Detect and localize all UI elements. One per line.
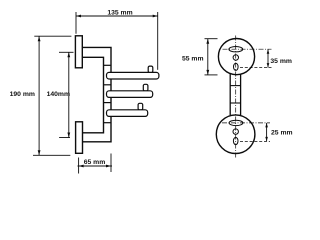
svg-text:35 mm: 35 mm — [270, 58, 292, 65]
bottom roundel screw hole — [233, 129, 238, 134]
knob on arm 2 — [143, 84, 148, 91]
arrowhead 190mm bottom — [38, 150, 41, 155]
dim 65mm extension line left — [78, 158, 80, 174]
bottom roundel lower boss extension — [240, 140, 270, 142]
post joint line 1 — [104, 64, 112, 66]
bottom roundel arm centerline — [222, 122, 270, 124]
dim 135mm extension line right — [157, 12, 159, 70]
front view stem right edge — [240, 74, 242, 115]
arrowhead 135mm right — [153, 15, 158, 18]
knob on arm 1 — [148, 66, 153, 73]
arrowhead 135mm left — [76, 15, 81, 18]
bracket and post outer outline — [82, 47, 111, 141]
front view stem left edge — [229, 74, 231, 115]
bracket and post inner outline — [82, 57, 103, 133]
vertical centerline — [235, 36, 237, 159]
arrowhead 65mm right — [106, 165, 111, 168]
bottom roundel arm ellipse — [229, 120, 243, 125]
arrowhead 25mm top — [265, 123, 268, 128]
dim 55mm extension line top — [205, 38, 218, 40]
arrowhead 140mm bottom — [67, 133, 70, 138]
arrowhead 35mm top — [267, 49, 270, 54]
top roundel screw hole — [233, 55, 238, 60]
dim 135mm extension line left — [75, 12, 77, 34]
post joint line 3 — [104, 102, 112, 104]
dim 65mm extension line right — [110, 154, 112, 173]
arrowhead 190mm top — [38, 36, 41, 41]
arrowhead 25mm bottom — [265, 137, 268, 142]
svg-text:190 mm: 190 mm — [10, 91, 35, 98]
arrowhead 35mm bottom — [267, 63, 270, 68]
dim 35mm dimension line — [267, 49, 269, 67]
wall plate bottom (side view) — [76, 122, 83, 154]
stem joint line 1 — [230, 85, 240, 87]
svg-text:55 mm: 55 mm — [182, 56, 204, 63]
dim 55mm extension line bottom — [205, 74, 218, 76]
wall plate top (side view) — [75, 36, 82, 68]
svg-text:135 mm: 135 mm — [107, 10, 132, 17]
post joint line 4 — [104, 122, 112, 124]
swivel arm 1 — [107, 72, 159, 79]
svg-text:25 mm: 25 mm — [271, 130, 293, 137]
stem joint line 2 — [230, 102, 240, 104]
dim 140mm extension line top — [59, 51, 74, 53]
dim 25mm dimension line — [266, 123, 268, 141]
dim 140mm extension line bottom — [59, 137, 70, 139]
arrowhead 65mm left — [79, 165, 84, 168]
dim 55mm dimension line — [207, 39, 209, 75]
front view bottom roundel — [216, 115, 255, 154]
top roundel lower boss extension — [240, 67, 272, 69]
top roundel arm ellipse — [229, 47, 243, 52]
swivel arm 3 — [107, 110, 148, 117]
dim 65mm dimension line — [78, 165, 113, 167]
top roundel arm centerline — [223, 48, 272, 50]
svg-text:140mm: 140mm — [47, 91, 70, 98]
swivel arm 2 — [107, 91, 153, 98]
bottom roundel lower boss — [233, 137, 238, 144]
arrowhead 55mm top — [206, 39, 209, 44]
dim 140mm dimension line — [68, 52, 70, 137]
arrowhead 140mm top — [67, 52, 70, 57]
dim 135mm dimension line — [76, 15, 158, 17]
dim 190mm extension line top — [34, 35, 71, 37]
top roundel lower boss — [234, 63, 239, 70]
post joint line 2 — [104, 84, 112, 86]
dim 190mm dimension line — [38, 36, 40, 155]
arrowhead 55mm bottom — [206, 70, 209, 75]
svg-text:65 mm: 65 mm — [84, 159, 106, 166]
dim 190mm extension line bottom — [33, 154, 70, 156]
front view top roundel — [218, 39, 254, 75]
knob on arm 3 — [138, 103, 143, 110]
